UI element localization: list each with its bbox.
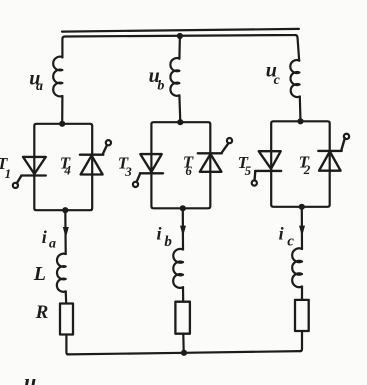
wire: u_b coil to box2 [178, 95, 181, 122]
label u_c [266, 59, 281, 87]
wire: L to R (phase b) [182, 287, 184, 301]
node: box1 bottom [62, 207, 68, 213]
node: box3 top [297, 118, 303, 124]
svg-text:5: 5 [245, 163, 252, 178]
label u_a [29, 67, 43, 94]
wire: box3 outline [271, 121, 330, 207]
svg-text:4: 4 [63, 162, 71, 177]
inductor u_c coil [290, 60, 299, 97]
label T3 [118, 154, 133, 179]
label i_a [42, 227, 56, 252]
node: bottom bus junction phase b [181, 350, 187, 356]
svg-text:c: c [287, 234, 294, 250]
inductor L (phase a) [57, 254, 66, 292]
wire: box2 bottom to L coil (phase b load) [182, 208, 184, 249]
label u (caption, cut off at bottom) [24, 369, 36, 385]
inductor phase c [292, 248, 302, 287]
arrow i_a [63, 227, 69, 238]
wire: lower supply bus with corners down to phase a and phase c branches [62, 35, 299, 61]
label T5 [238, 153, 252, 178]
node: box1 top [59, 121, 65, 127]
wire: bottom bus [67, 351, 301, 354]
node: bus junction to phase b [177, 33, 183, 39]
svg-text:2: 2 [303, 162, 311, 177]
wire: L to R (phase a) [65, 291, 68, 303]
svg-text:c: c [274, 73, 281, 88]
label T1 [0, 154, 11, 181]
thyristor T3 [133, 154, 163, 187]
label R [35, 302, 49, 323]
wire: L to R (phase c) [301, 287, 303, 300]
resistor phase b [175, 302, 190, 334]
node: box2 top [177, 119, 183, 125]
wire: u_c coil to box3 [299, 97, 302, 122]
svg-text:b: b [164, 234, 172, 250]
label T4 [60, 154, 72, 178]
arrow i_c [299, 226, 305, 237]
wire: box3 bottom to L coil (phase c load) [301, 207, 303, 249]
arrow i_b [180, 226, 186, 237]
thyristor T2 [318, 134, 349, 171]
label T2 [299, 153, 311, 177]
svg-text:a: a [36, 79, 43, 94]
resistor R (phase a) [60, 304, 73, 335]
inductor phase b [173, 249, 183, 288]
wire: box1 bottom to L coil (phase a load) [64, 210, 67, 254]
thyristor T6 [198, 138, 232, 172]
label i_c [279, 224, 295, 250]
wire: R to bottom bus (phase c) [300, 331, 302, 351]
thyristor T5 [252, 151, 282, 185]
svg-text:a: a [49, 237, 56, 252]
wire: upper supply bus line [62, 29, 299, 32]
thyristor T1 (triangle + cathode bar) [13, 157, 46, 188]
svg-text:u: u [24, 369, 36, 385]
resistor phase c [295, 300, 309, 331]
inductor u_b coil [170, 58, 179, 96]
svg-text:3: 3 [124, 164, 132, 179]
wire: R to bottom bus (phase b) [182, 334, 185, 353]
thyristor T4 (triangle + cathode bar + gate) [80, 140, 111, 174]
node: box3 bottom [299, 204, 305, 210]
wire: R to bottom bus (phase a) [66, 335, 68, 355]
svg-text:6: 6 [185, 163, 192, 178]
svg-text:b: b [157, 79, 164, 94]
label T6 [183, 153, 194, 179]
svg-text:i: i [157, 224, 162, 244]
wire: phase b stub from bus to coil [178, 36, 181, 59]
wire: box2 outline [151, 122, 210, 208]
svg-text:1: 1 [5, 166, 12, 181]
node: box2 bottom [180, 205, 186, 211]
svg-text:i: i [279, 224, 284, 244]
label u_b [149, 65, 165, 94]
wire: box1 outline (parallel thyristor pair frame) [34, 124, 92, 210]
svg-text:L: L [33, 263, 46, 285]
svg-text:R: R [35, 302, 49, 323]
inductor u_a coil [53, 57, 62, 97]
wire: u_a coil to box1 [61, 96, 63, 124]
svg-text:i: i [42, 227, 47, 247]
label L [33, 263, 46, 285]
label i_b [157, 224, 173, 250]
